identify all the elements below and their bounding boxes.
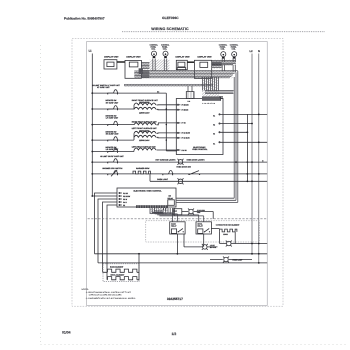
lower box left wire 4 [103,202,118,272]
coil group 3 to EOC pins [157,133,178,138]
node row6-L2 [251,161,253,163]
oven light rocker switch [163,171,173,176]
display unit 4 right ribbon hatch [212,63,222,68]
display unit 2 inner connector [129,62,138,67]
EOC right pin 4 [219,142,220,143]
node L1 pin2 [91,195,93,197]
svg-text:P11: P11 [188,100,191,103]
switch row 1 [108,90,118,95]
node conv-N [258,243,260,245]
node collector row3 [166,124,167,125]
svg-text:OVEN DOOR CLOSED AND UNLOCKED: OVEN DOOR CLOSED AND UNLOCKED [89,294,122,297]
svg-text:DISPLAY UNIT: DISPLAY UNIT [176,55,191,58]
switch row 2 [108,106,118,111]
svg-text:WIRING SCHEMATIC: WIRING SCHEMATIC [151,27,189,31]
wire to cooling fan [182,212,213,219]
terminal 1-2 drop wires [153,59,167,72]
wire row 4 [92,139,134,141]
node row6 on L1 [91,161,93,163]
coil group 4 to EOC pin [157,149,178,151]
svg-text:01/04: 01/04 [62,330,71,334]
svg-text:NOTES:: NOTES: [82,288,90,291]
lower control box [117,188,176,207]
control coil terminal 3 [221,52,226,59]
terminal 3-4 drop wires [222,58,235,62]
display unit 2 lower ribbon hatch [134,71,149,77]
lower box left wire 5 [107,205,117,280]
svg-text:P10 W: P10 W [182,149,187,152]
svg-text:RELAY: RELAY [168,197,174,200]
oven light 2 lamp [202,244,208,250]
svg-text:COIL: COIL [221,48,225,51]
svg-text:MOTOR: MOTOR [210,246,217,249]
switch row 6 [108,159,118,164]
bus L2 vertical [251,54,253,254]
switch row 5 [108,148,118,153]
lower box bottom drop wires [150,208,175,216]
node row3 on L1 [91,124,93,126]
lower box bottom connector [136,205,168,208]
page fold mark: left vertical dotted line [40,45,42,345]
EOC left pin row5 [177,149,180,150]
wire row 7 oven door circuit [92,173,267,175]
node collector row2 [166,108,167,109]
terminal band hatch [214,60,237,66]
svg-text:2. COMPONENTS WTH * IN ID N: 2. COMPONENTS WTH * IN ID NOT SHOWN IN A… [86,297,136,300]
node conv-L2 [251,243,253,245]
outer dashed border [72,38,283,306]
svg-text:P5: P5 [123,204,125,207]
svg-text:OVEN LIGHT: OVEN LIGHT [157,178,169,181]
node N-253.8 [258,253,260,255]
display unit 1 box [104,60,117,69]
hot surface indicator lamp [178,159,184,165]
svg-text:L1: L1 [89,50,93,53]
svg-text:P6 BK/R: P6 BK/R [182,109,189,112]
bake element [108,269,137,272]
warmer switch with arrow [108,171,118,176]
EOC left pin row2a [177,104,180,105]
svg-text:ELECTRONIC OVEN CONTROL: ELECTRONIC OVEN CONTROL [134,189,163,192]
svg-text:OVEN CONTROL: OVEN CONTROL [192,148,208,151]
convection element [220,229,237,232]
EOC right wire 3 [220,131,247,133]
schematic frame [87,42,268,306]
lower box pin 5 [119,204,122,205]
coil group 1 to EOC pins [157,105,178,110]
svg-text:COIL: COIL [163,48,167,51]
coil group 3 left tie [133,133,135,140]
svg-text:RR SURF UNIT: RR SURF UNIT [106,133,120,136]
display unit 3 box [176,60,187,69]
EOC right wire 1 to N [220,113,267,115]
dashed section separator [88,218,268,220]
svg-text:N: N [258,50,260,53]
node row8-L2 [251,180,253,182]
band B hatch [124,84,213,87]
relay feed wires [153,213,204,216]
terminal band right [212,61,236,65]
svg-text:LF SURF UNIT: LF SURF UNIT [106,117,119,120]
wire vertical x247 [246,114,248,181]
lower box relay sub box [168,200,175,206]
wire row 8 oven light [150,180,267,182]
lower box pin 4 [119,201,122,202]
switch row 3 [108,121,118,126]
svg-text:P7 W: P7 W [182,122,187,125]
node row1 on L1 [91,92,93,94]
display unit 3 inner connector [178,62,185,67]
node 139-253.8 [138,253,140,255]
EOC right pin 2 [219,123,220,124]
svg-text:123456789: 123456789 [202,102,215,105]
right vertical wire bundle [234,71,238,202]
cooling fan motor [188,209,194,215]
broil element [108,277,137,280]
svg-text:HI LIMIT SW RF SURF UNIT: HI LIMIT SW RF SURF UNIT [100,155,124,158]
coil group 4 left tie [133,150,135,152]
svg-text:P4: P4 [213,143,215,146]
svg-text:1250W 240V: 1250W 240V [139,112,150,115]
wire row 5 [92,151,134,153]
relay A drop to long wire [176,234,178,254]
broil relay contact [205,229,210,232]
EOC left pin row4a [177,132,180,133]
lower box pin 1 [119,192,122,193]
svg-text:P2: P2 [213,124,215,127]
svg-text:P3: P3 [213,133,215,136]
band B drop into connector box [188,86,192,92]
page fold mark: bottom horizontal dotted line [41,344,349,346]
EOC drop hatch [202,78,219,91]
coil group 3 upper coil [134,131,156,133]
lower box pin 3 [119,198,122,199]
svg-text:L2: L2 [250,50,254,53]
vertical collector wire x166 [165,93,167,151]
svg-text:1. CIRCUIT SHOWN WITH ALL CON: 1. CIRCUIT SHOWN WITH ALL CONTROLS OFF T… [86,291,132,294]
node row6-v236 [235,161,237,163]
svg-text:GLEF396C: GLEF396C [162,16,179,20]
long wire y253.8 [95,253,268,255]
coil group 1 upper coil [134,103,156,105]
coil group 1 lower coil [134,107,156,109]
broil relay box [196,222,211,234]
svg-text:Publication No. 5995407907: Publication No. 5995407907 [64,16,105,20]
EOC small top connector box [186,92,194,99]
lower box left wire 3 [98,199,117,263]
coil group 2 coil [134,123,156,125]
lower box drop hatch [150,208,169,214]
lower box left wire 2 to L1 [92,195,117,197]
bake relay coil box [171,229,176,234]
svg-text:P5 BK/W: P5 BK/W [182,104,189,107]
ribbon link display1-display2 [117,61,125,63]
oven lamp wire [210,259,252,261]
svg-text:OVEN LAMP: OVEN LAMP [232,258,243,261]
svg-text:WARMER SRV SWITCH: WARMER SRV SWITCH [102,167,123,170]
band A drop to EOC connector [203,77,219,91]
svg-text:BAKE: BAKE [171,223,176,226]
small relay box upper [173,209,182,215]
EOC left pin row2b [177,109,180,110]
collector elbow to EOC [166,150,177,152]
coil group 3 lower coil [134,135,156,137]
EOC left pin row3 [177,122,180,123]
svg-text:DISPLAY UNIT: DISPLAY UNIT [126,55,141,58]
node row5 on L1 [91,151,93,153]
oven light 2 wire [184,234,218,247]
coil group 4 coil [134,148,156,150]
warmer element square wave [133,171,150,174]
bus L1 vertical [91,54,93,197]
band A corner to right verticals [205,91,234,94]
wire row 3 [92,124,134,126]
EOC top connector block [202,96,221,100]
svg-text:350W: 350W [223,233,228,236]
bake relay box [170,222,185,234]
EOC relay board box [176,99,223,155]
display unit 2 right ribbon hatch [141,63,149,69]
EOC right pin 1 [219,114,220,115]
relay feed drops [172,213,203,222]
svg-text:P9 2 BK/R: P9 2 BK/R [182,137,191,140]
svg-text:CONVECTION FAN ELEMENT: CONVECTION FAN ELEMENT [216,224,241,227]
bake relay contact [178,229,183,232]
svg-text:1250W 240V: 1250W 240V [139,139,150,142]
svg-text:DISPLAY UNIT: DISPLAY UNIT [104,55,119,58]
EOC right wire 4 to N [220,141,267,143]
EOC right pin 3 [219,132,220,133]
node row7-247 [247,173,249,175]
triple wires into lower box right [176,198,238,202]
EOC top right elbow [219,97,223,98]
wire relay B to element [211,228,219,230]
node row4 on L1 [91,139,93,141]
main wire band A [142,70,238,77]
coil group 2 to EOC pin [157,123,178,125]
node row2 on L1 [91,108,93,110]
node row6-247 [247,161,249,163]
wire row 6 hot surface indicator [92,161,267,163]
band A hatch [142,70,233,78]
svg-text:BROIL: BROIL [198,223,203,226]
terminal 1-2 drop hatch [150,60,170,72]
svg-text:DISPLAY UNIT: DISPLAY UNIT [198,55,213,58]
broil element wires [107,254,139,280]
wire row 1 [92,92,166,94]
svg-text:OVEN DOOR SW: OVEN DOOR SW [176,166,191,169]
display unit 4 inner connector [200,62,208,67]
node collector row4 [166,139,167,140]
display unit 4 box [194,60,211,78]
wire row 2 [92,108,134,110]
display unit 2 box [125,60,141,78]
warmer drop to lamp row [149,174,151,181]
display unit 3 lower connector [177,68,186,70]
display unit 2 connector block [139,68,143,74]
control coil terminal 1 [151,51,156,58]
svg-text:BROIL ELEMENT: BROIL ELEMENT [111,273,126,276]
relay B drop [203,234,205,247]
bus N vertical [258,54,260,263]
svg-text:BAKE ELEMENT: BAKE ELEMENT [110,266,124,269]
switch row 4 [108,137,118,142]
svg-text:P3 W: P3 W [123,198,128,201]
convection fan motor [226,241,232,247]
control coil terminal 2 [163,51,168,58]
svg-text:AT SURF. UNIT: AT SURF. UNIT [97,86,111,89]
node row8-247 [247,180,249,182]
svg-text:OVEN DOOR LIGHTS: OVEN DOOR LIGHTS [187,159,206,162]
node row7 on L1 [91,173,93,175]
convection element side drops [220,232,236,244]
band B lower ribbon [124,84,213,86]
terminal 3-4 lower drops [222,65,235,72]
node row7-N [258,173,260,175]
svg-text:RF SURF UNIT: RF SURF UNIT [106,101,119,104]
control coil terminal 4 [232,52,237,59]
svg-text:P1 BK: P1 BK [123,192,129,195]
relay enclosure dashed [146,221,260,242]
node L2-253.8 [251,253,253,255]
svg-text:HOT SURFACE LIGHTS: HOT SURFACE LIGHTS [156,159,177,162]
bake element wires [103,271,140,273]
lower box left wire 1 [95,193,118,254]
EOC left pin row4b [177,137,180,138]
node N-262.9 [258,262,260,264]
display unit 1 inner connector [107,62,114,67]
coil group 1 left tie [133,105,135,109]
bake broil enclosure dashed [103,264,139,282]
EOC right wire 2 to L2 [220,123,252,125]
svg-text:1/2: 1/2 [172,332,177,336]
long wire y262.9 from L1 [98,262,267,264]
oven light lamp [178,178,184,184]
ribbon link display3-display4 [187,61,194,63]
broil relay coil box [198,229,203,234]
oven lamp [223,257,229,263]
svg-text:COIL: COIL [232,48,236,51]
svg-text:WARMER 650W: WARMER 650W [136,167,150,170]
oven door switch blade [189,171,199,175]
svg-text:P1: P1 [213,115,215,118]
svg-text:COIL: COIL [151,48,155,51]
header underline dotted [122,31,325,33]
wire conv motor row [220,243,268,245]
svg-text:P4 R: P4 R [123,201,128,204]
lower box pin 2 [119,195,122,196]
svg-text:P2 BK/W: P2 BK/W [123,195,130,198]
svg-text:316255717: 316255717 [167,297,183,301]
EOC top connector pins [203,96,219,100]
svg-text:P8 2 BK/W: P8 2 BK/W [182,132,191,135]
